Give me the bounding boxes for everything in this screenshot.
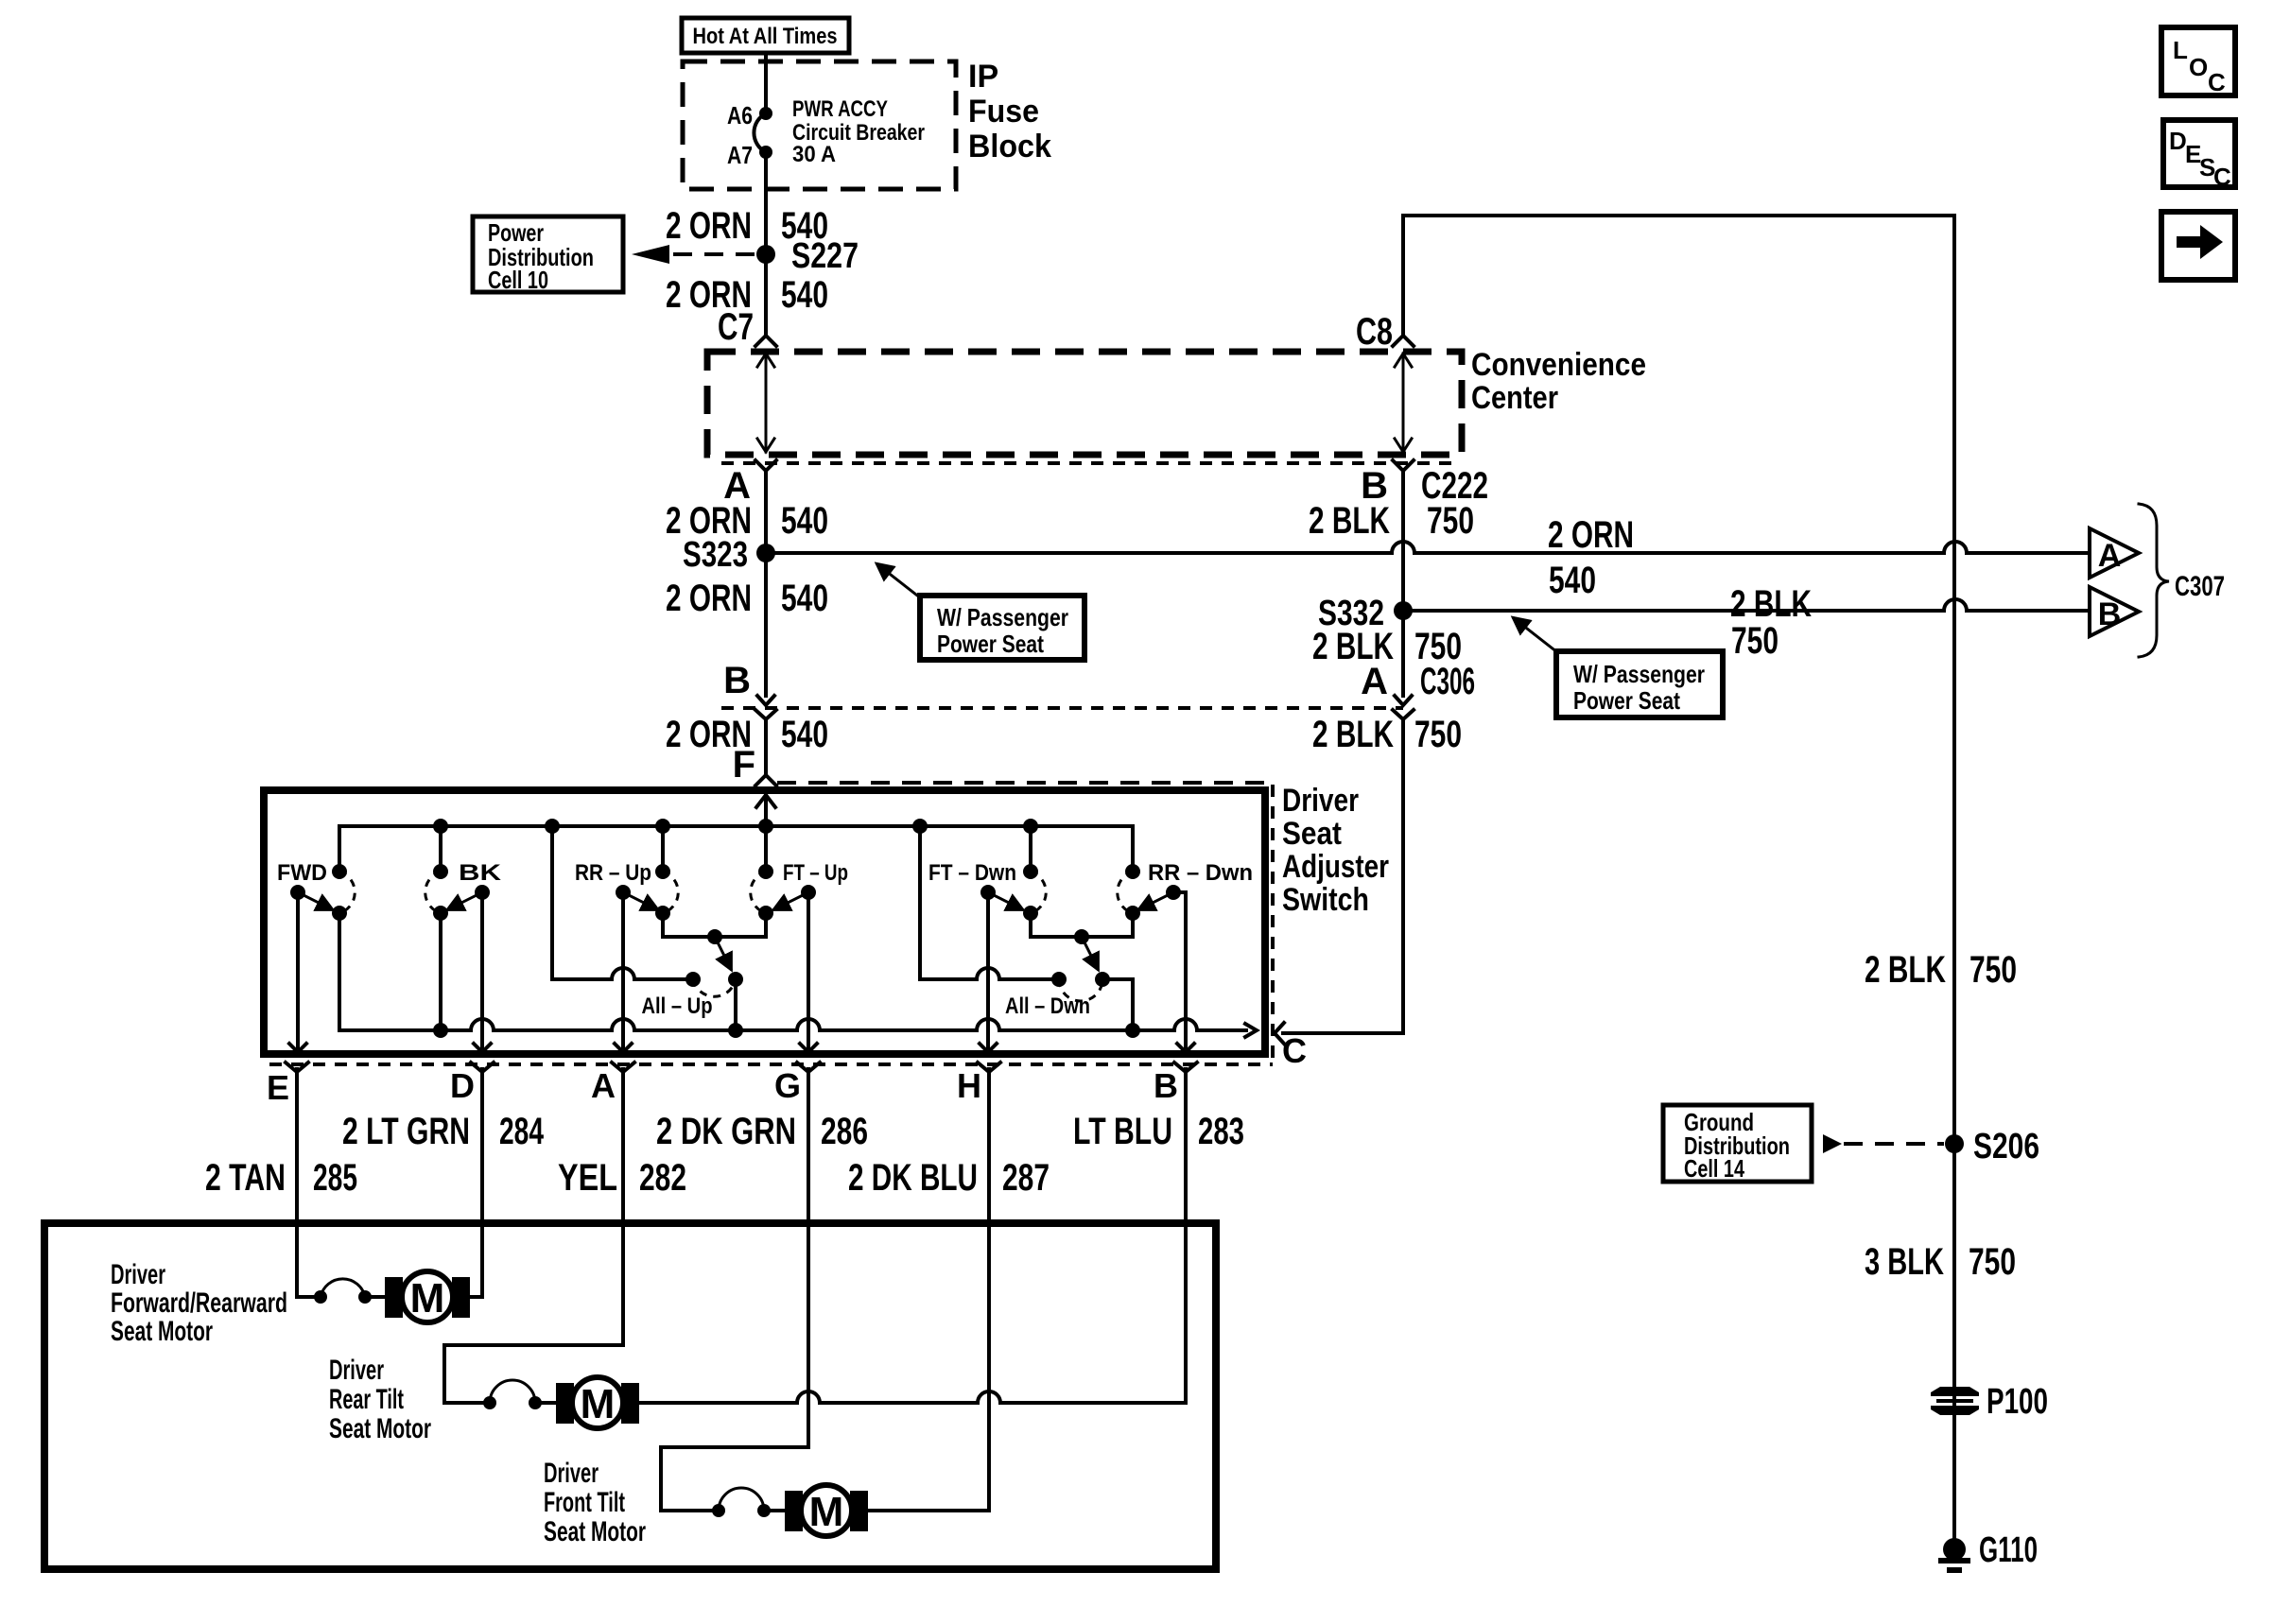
svg-text:Rear Tilt: Rear Tilt [329, 1384, 404, 1415]
svg-text:B: B [2098, 596, 2122, 632]
wire label 2 BLK 750 (below S332) [1312, 626, 1462, 667]
svg-text:Seat Motor: Seat Motor [329, 1413, 431, 1444]
connector pin B chevron (right, C222) [1393, 460, 1414, 471]
svg-text:A6: A6 [727, 101, 753, 130]
svg-text:YEL: YEL [558, 1157, 617, 1199]
wire: switch top bus [339, 826, 1133, 872]
wire label 2 ORN 540 (below S323) [666, 578, 828, 619]
label Driver Rear Tilt Seat Motor [329, 1355, 431, 1444]
svg-text:IP: IP [968, 59, 998, 95]
svg-text:C307: C307 [2175, 571, 2225, 602]
svg-text:2 DK GRN: 2 DK GRN [656, 1111, 796, 1152]
switch All-Up contacts [685, 972, 743, 996]
svg-text:750: 750 [1414, 714, 1462, 755]
svg-text:540: 540 [1549, 560, 1596, 601]
wire: convenience center left internal (double arrow) [757, 354, 774, 452]
wire label 3 BLK 750 [1865, 1241, 2016, 1283]
svg-text:2 ORN: 2 ORN [666, 578, 752, 619]
node bus-AllUp [545, 819, 560, 834]
svg-text:Seat Motor: Seat Motor [544, 1516, 646, 1547]
wire: terminal E down to F/R motor [297, 1069, 321, 1297]
circuit breaker PWR ACCY 30A (arc between A6 and A7) [754, 113, 766, 152]
splice S323 [756, 544, 775, 562]
wire label LT BLU 283 [1073, 1111, 1244, 1152]
svg-text:L: L [2173, 36, 2188, 64]
terminal A7 [759, 146, 772, 159]
svg-text:2 BLK: 2 BLK [1309, 500, 1390, 542]
wire: RR-Up pivot to terminal A with arrow [615, 892, 632, 1052]
svg-text:C: C [2208, 68, 2226, 96]
wire: terminal G down and over to Front Tilt motor [661, 1069, 808, 1511]
node All-Up feed [707, 929, 722, 944]
svg-text:S323: S323 [683, 535, 748, 575]
connector pin C chevron [1275, 1023, 1284, 1044]
Front Tilt motor thermal contacts [712, 1488, 771, 1517]
motor M2 Rear Tilt [556, 1377, 639, 1428]
ground G110 [1938, 1538, 1970, 1570]
wire: switch bottom bus to pin C with arrow [339, 1019, 1257, 1037]
wire: terminal A down and over to Rear Tilt motor [444, 1069, 623, 1403]
callout arrow W/ Passenger Power Seat (left) [877, 564, 921, 598]
svg-text:S227: S227 [791, 236, 859, 276]
switch BK: stub, contacts and blade [425, 826, 490, 921]
svg-text:S206: S206 [1973, 1127, 2039, 1166]
connector pin A chevron (left, below convenience center) [755, 460, 776, 471]
label Driver Seat Adjuster Switch [1282, 783, 1389, 918]
svg-text:C8: C8 [1356, 311, 1393, 353]
wire: All-Dwn right contact to bottom bus [1102, 979, 1140, 1038]
connector chevron below (left) [755, 710, 776, 719]
svg-text:B: B [1154, 1066, 1178, 1105]
wire: battery feed into fuse block [764, 53, 768, 113]
svg-text:2 ORN: 2 ORN [666, 205, 752, 247]
svg-text:284: 284 [499, 1111, 545, 1152]
connector chevron below (right) [1393, 710, 1414, 719]
label IP Fuse Block [968, 59, 1051, 164]
wire: FT-Dwn / RR-Dwn commons joined [1031, 913, 1133, 937]
wire label YEL 282 [558, 1157, 686, 1199]
svg-text:287: 287 [1002, 1157, 1050, 1199]
svg-text:F: F [733, 744, 755, 786]
terminal A6 [759, 107, 772, 120]
wire: C306 pin A down to switch pin C level [1283, 719, 1403, 1033]
grommet P100 [1931, 1387, 1979, 1415]
svg-text:Convenience: Convenience [1471, 347, 1646, 383]
wire label 2 ORN 540 (below S227) [666, 274, 828, 316]
connector C222 boundary dotted line [721, 461, 1459, 465]
wire: FT-Dwn pivot to terminal H with arrow [980, 892, 997, 1052]
switch RR-Dwn: contacts and blade [1118, 864, 1181, 921]
wire label 2 TAN 285 [205, 1157, 357, 1199]
label A / C306 [1361, 661, 1475, 702]
wire label 2 ORN 540 (above S227) [666, 205, 828, 247]
svg-text:Adjuster: Adjuster [1282, 849, 1389, 885]
C307 connector triangle pin A [2090, 528, 2139, 578]
motor M1 Forward/Rearward [385, 1271, 470, 1322]
wire label 2 LT GRN 284 [342, 1111, 545, 1152]
wire: RR-Dwn pivot to terminal B with arrow [1173, 892, 1194, 1052]
svg-text:W/ Passenger: W/ Passenger [1573, 660, 1705, 688]
svg-text:FT – Dwn: FT – Dwn [928, 860, 1016, 886]
C307 connector triangle pin B [2090, 587, 2139, 636]
svg-text:Forward/Rearward: Forward/Rearward [111, 1287, 287, 1319]
switch FT-Up: stub, contacts and blade [751, 826, 816, 921]
label Convenience Center [1471, 347, 1646, 416]
Rear Tilt motor thermal contacts [483, 1380, 542, 1409]
F/R motor thermal contacts [314, 1279, 372, 1304]
svg-text:Driver: Driver [544, 1458, 599, 1489]
dashed reference arrow to Ground Distribution [1823, 1134, 1944, 1153]
wire: All-Up right contact to bottom bus [728, 979, 743, 1038]
splice S206 [1945, 1134, 1964, 1153]
svg-text:W/ Passenger: W/ Passenger [937, 603, 1068, 631]
node bus-AllDwn [912, 819, 928, 834]
wire: pin B (C222) down through S332 to C306 [1401, 470, 1405, 696]
wire: F/R motor to terminal D [470, 1069, 482, 1297]
svg-text:A7: A7 [727, 141, 753, 169]
svg-text:O: O [2189, 53, 2208, 81]
svg-text:RR – Up: RR – Up [575, 860, 651, 886]
svg-text:540: 540 [781, 714, 828, 755]
svg-text:285: 285 [313, 1157, 357, 1199]
wire to motor brush [764, 1509, 787, 1512]
svg-text:Power Seat: Power Seat [1573, 686, 1680, 715]
svg-text:Power Seat: Power Seat [937, 630, 1044, 658]
svg-text:540: 540 [781, 274, 828, 316]
svg-text:750: 750 [1969, 1241, 2016, 1283]
svg-text:2 LT GRN: 2 LT GRN [342, 1111, 470, 1152]
svg-text:C: C [2213, 163, 2231, 191]
Driver Seat Adjuster Switch box [264, 790, 1265, 1054]
icon box arrow [2161, 212, 2235, 280]
svg-text:G: G [774, 1066, 801, 1105]
arrowhead into connector (left) [757, 696, 774, 705]
label PWR ACCY Circuit Breaker 30 A [792, 96, 925, 167]
svg-text:C7: C7 [718, 306, 754, 348]
svg-text:2 DK BLU: 2 DK BLU [848, 1157, 978, 1199]
svg-text:Fuse: Fuse [968, 94, 1039, 130]
wire: All-Up left contact feed [552, 826, 693, 979]
wire: down to switch connector F [764, 719, 768, 775]
svg-text:Front Tilt: Front Tilt [544, 1487, 625, 1518]
svg-text:P100: P100 [1987, 1382, 2048, 1422]
wire label 2 DK BLU 287 [848, 1157, 1050, 1199]
svg-text:M: M [581, 1381, 616, 1427]
label box Power Distribution Cell 10 [473, 216, 623, 294]
svg-text:2 BLK: 2 BLK [1730, 583, 1812, 625]
svg-text:G110: G110 [1979, 1530, 2038, 1570]
connector F chevron [755, 775, 776, 786]
motor M3 Front Tilt [785, 1485, 868, 1536]
svg-text:Driver: Driver [111, 1259, 165, 1290]
icon box LOC [2161, 27, 2235, 96]
switch All-Up blade [715, 937, 731, 969]
svg-text:30 A: 30 A [792, 142, 836, 167]
connector C8 chevron [1393, 336, 1414, 346]
svg-text:D: D [450, 1066, 475, 1105]
label box Ground Distribution Cell 14 [1663, 1105, 1812, 1183]
arrowhead into connector (right) [1395, 696, 1412, 705]
svg-text:Seat Motor: Seat Motor [111, 1316, 213, 1347]
svg-text:Driver: Driver [329, 1355, 384, 1386]
wire label 2 ORN 540 (above F) [666, 714, 828, 755]
wire: All-Dwn left contact feed [920, 826, 1059, 979]
svg-text:E: E [267, 1068, 289, 1107]
svg-text:540: 540 [781, 578, 828, 619]
svg-text:286: 286 [821, 1111, 868, 1152]
svg-text:D: D [2169, 127, 2187, 155]
svg-text:Hot At All Times: Hot At All Times [693, 24, 838, 49]
wire to motor brush [535, 1401, 558, 1405]
wire label 2 DK GRN 286 [656, 1111, 868, 1152]
svg-text:C: C [1282, 1031, 1307, 1070]
switch connector dashed boundary [777, 781, 1273, 785]
node bus-BK [433, 819, 448, 834]
switch All-Dwn blade [1082, 937, 1098, 969]
wire: Front Tilt motor right side to terminal H [868, 1069, 989, 1511]
svg-text:750: 750 [1427, 500, 1474, 542]
switch FT-Dwn: stub, contacts and blade [980, 826, 1046, 921]
wire label 2 BLK 750 (below pin B) [1309, 500, 1474, 542]
svg-text:Switch: Switch [1282, 882, 1369, 918]
switch All-Dwn contacts [1051, 972, 1110, 1001]
svg-text:B: B [723, 660, 751, 701]
wire: convenience center right internal (double arrow) [1395, 354, 1412, 452]
node All-Dwn feed [1074, 929, 1089, 944]
label B / C222 [1361, 465, 1488, 507]
label box W/ Passenger Power Seat (right) [1556, 651, 1723, 717]
node bus-F/FTUp [758, 819, 773, 834]
wire: S323 branch to C307 pin A [766, 542, 2090, 553]
svg-text:3 BLK: 3 BLK [1865, 1241, 1944, 1283]
svg-text:C306: C306 [1420, 661, 1475, 702]
svg-text:2 ORN: 2 ORN [1548, 514, 1634, 556]
svg-text:Cell 14: Cell 14 [1684, 1154, 1744, 1183]
wire: A7 down to C7 [764, 152, 768, 336]
svg-text:Block: Block [968, 129, 1051, 164]
connector C306 boundary dashed line [721, 706, 1403, 710]
svg-text:FWD: FWD [277, 860, 327, 886]
svg-text:Driver: Driver [1282, 783, 1359, 819]
node bus-RRUp [655, 819, 670, 834]
svg-text:2 BLK: 2 BLK [1312, 714, 1394, 755]
wire label 2 ORN 540 (below pin A) [666, 500, 828, 542]
svg-text:PWR ACCY: PWR ACCY [792, 96, 888, 122]
svg-text:Center: Center [1471, 380, 1558, 416]
svg-text:750: 750 [1969, 949, 2017, 991]
svg-text:540: 540 [781, 500, 828, 542]
wire: C8 riser up and over to ground run [1403, 216, 1954, 1541]
svg-text:750: 750 [1731, 620, 1778, 662]
wire: FWD common to bottom bus [338, 913, 341, 1030]
svg-text:M: M [410, 1275, 445, 1322]
svg-text:2 BLK: 2 BLK [1865, 949, 1946, 991]
svg-text:Seat: Seat [1282, 816, 1342, 852]
wire: Rear Tilt motor right side to terminal B [639, 1069, 1186, 1403]
svg-text:282: 282 [639, 1157, 686, 1199]
label box W/ Passenger Power Seat (left) [920, 596, 1084, 660]
svg-text:RR – Dwn: RR – Dwn [1148, 860, 1253, 886]
wire to motor brush [365, 1295, 387, 1299]
IP Fuse Block dashed box [683, 61, 956, 189]
svg-text:Cell 10: Cell 10 [488, 266, 548, 294]
svg-text:FT – Up: FT – Up [783, 860, 848, 886]
connector C7 chevron [755, 336, 776, 346]
splice S332 [1394, 601, 1413, 620]
svg-text:H: H [957, 1066, 981, 1105]
wire: BK common to bottom bus [433, 913, 448, 1038]
svg-text:A: A [1361, 661, 1388, 702]
connector chevrons E D A G H B [286, 1063, 308, 1072]
svg-text:All – Up: All – Up [642, 993, 713, 1019]
brace and label C307 [2139, 504, 2225, 657]
wire: pin A down to switch feed (x=810) [764, 470, 768, 696]
wire: RR-Up / FT-Up commons joined [663, 913, 766, 937]
svg-text:A: A [2098, 538, 2122, 574]
splice S227 [756, 245, 775, 264]
Convenience Center dashed box [707, 352, 1462, 455]
wire: FWD pivot to terminal E with arrow [289, 892, 306, 1052]
svg-text:All – Dwn: All – Dwn [1005, 993, 1090, 1019]
wire: FT-Up pivot to terminal G with arrow [800, 892, 817, 1052]
callout arrow W/ Passenger Power Seat (right) [1514, 618, 1557, 652]
wire: BK pivot to terminal D with arrow [474, 892, 491, 1052]
wire label 2 BLK 750 (below C306) [1312, 714, 1462, 755]
label Driver Forward/Rearward Seat Motor [111, 1259, 287, 1347]
label Driver Front Tilt Seat Motor [544, 1458, 646, 1547]
svg-text:LT BLU: LT BLU [1073, 1111, 1172, 1152]
svg-text:M: M [809, 1489, 844, 1535]
switch RR-Up: stub, contacts and blade [616, 826, 678, 921]
icon box DESC [2163, 120, 2235, 191]
wire: S332 branch to C307 pin B [1403, 599, 2090, 611]
wire label 2 BLK 750 (ground run upper) [1865, 949, 2017, 991]
switch FWD: contacts and blade [290, 864, 355, 921]
svg-text:2 TAN: 2 TAN [205, 1157, 286, 1199]
dashed reference arrow to Power Distribution [632, 245, 755, 264]
svg-text:283: 283 [1198, 1111, 1244, 1152]
label box "Hot At All Times" [682, 18, 849, 53]
svg-text:A: A [591, 1066, 616, 1105]
svg-text:BK: BK [459, 860, 502, 886]
Seat motor assembly box [44, 1223, 1216, 1569]
wire: feed F into switch with up arrow [756, 792, 775, 826]
node bus-FTDwn [1023, 819, 1038, 834]
